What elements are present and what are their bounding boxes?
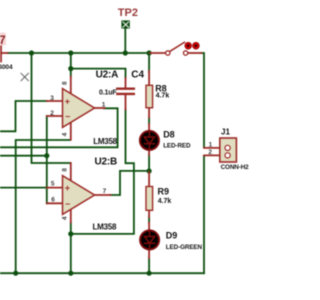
- wire J1 pin2 to rail: [203, 156, 205, 273]
- wire TP2 stem: [124, 28, 126, 54]
- svg-text:U2:A: U2:A: [96, 69, 119, 80]
- svg-text:8: 8: [62, 168, 69, 172]
- wire switch to J1: [201, 53, 204, 147]
- wire left into node: [0, 155, 47, 157]
- wire U2:B out to LED node: [110, 171, 149, 195]
- node bus-left: [29, 50, 34, 55]
- wire U2:A pin3 feed: [0, 101, 47, 131]
- svg-text:4: 4: [62, 132, 69, 136]
- svg-text:1: 1: [209, 142, 213, 149]
- capacitor C4: [99, 69, 145, 109]
- svg-text:–: –: [65, 199, 70, 209]
- wire R8 bottom to D8: [148, 117, 150, 125]
- wire left ground riser: [16, 140, 70, 273]
- switch SW: [150, 42, 202, 55]
- no-model cross: [21, 73, 28, 80]
- node pin4B ground: [68, 231, 73, 236]
- wire Vcc to U2:B pin8: [32, 53, 71, 163]
- svg-text:TP2: TP2: [118, 7, 138, 19]
- svg-text:CONN-H2: CONN-H2: [221, 164, 250, 171]
- node inverting tap: [44, 153, 49, 158]
- wire ground rail: [0, 272, 204, 274]
- svg-text:LM358: LM358: [93, 137, 117, 146]
- svg-text:3: 3: [50, 95, 54, 102]
- wire D8 to node R9: [148, 154, 150, 173]
- svg-text:2: 2: [50, 110, 54, 117]
- wire R8 top: [148, 53, 150, 72]
- wire U2:A pin2 to U2:B pin6: [46, 116, 48, 203]
- svg-text:0.1uF: 0.1uF: [99, 90, 117, 97]
- node D8-R9: [147, 168, 152, 173]
- wire U2:B pin5 feed: [0, 187, 47, 189]
- wire U2:B pin4 down to rail: [70, 223, 72, 274]
- svg-text:LM358: LM358: [93, 222, 117, 231]
- node rail-D9: [147, 271, 152, 276]
- svg-text:J1: J1: [221, 128, 230, 137]
- svg-text:4.7k: 4.7k: [156, 93, 170, 100]
- wire Vcc bus: [8, 52, 149, 54]
- svg-text:4004: 4004: [0, 64, 13, 71]
- label 7 (clipped ref): [0, 33, 6, 46]
- svg-text:R9: R9: [158, 186, 170, 196]
- svg-text:D9: D9: [166, 231, 178, 241]
- op-amp U2:A: [47, 69, 118, 145]
- wire R9 bottom to D9: [148, 216, 150, 223]
- svg-text:D8: D8: [163, 129, 175, 139]
- diode D7 (clipped at left edge): [0, 45, 8, 62]
- svg-text:+: +: [65, 97, 70, 107]
- svg-text:7: 7: [0, 33, 6, 47]
- node bus-pin8: [68, 50, 73, 55]
- svg-text:7: 7: [103, 188, 107, 195]
- node bus-R8: [147, 50, 152, 55]
- svg-text:4: 4: [62, 216, 69, 220]
- node rail-mid: [68, 271, 73, 276]
- node rail-left: [13, 271, 18, 276]
- svg-text:+: +: [65, 183, 70, 193]
- svg-text:LED-RED: LED-RED: [163, 142, 191, 149]
- svg-text:–: –: [65, 111, 70, 121]
- svg-text:C4: C4: [131, 69, 144, 80]
- wire to C4 top: [71, 69, 126, 78]
- node C4 tap: [68, 66, 73, 71]
- resistor R8: [146, 71, 169, 118]
- node TP2: [123, 50, 128, 55]
- svg-text:4.7k: 4.7k: [158, 198, 172, 205]
- connector J1: [204, 128, 249, 172]
- LED D8: [140, 124, 191, 155]
- svg-text:8: 8: [62, 81, 69, 85]
- op-amp U2:B: [47, 156, 117, 231]
- LED D9: [140, 223, 202, 258]
- resistor R9: [146, 172, 171, 217]
- test point TP2: [118, 7, 138, 28]
- svg-text:LED-GREEN: LED-GREEN: [166, 244, 203, 251]
- svg-text:5: 5: [51, 181, 55, 188]
- svg-text:1: 1: [102, 102, 106, 109]
- wire D9 to rail: [148, 258, 150, 274]
- svg-text:U2:B: U2:B: [95, 156, 118, 167]
- wire Vcc drop to U2:A pin8: [70, 53, 72, 77]
- svg-text:2: 2: [208, 149, 212, 156]
- wire C4 bottom to ground path: [71, 109, 134, 234]
- wire U2:A pin1 output feedback: [0, 108, 118, 147]
- svg-text:6: 6: [51, 196, 55, 203]
